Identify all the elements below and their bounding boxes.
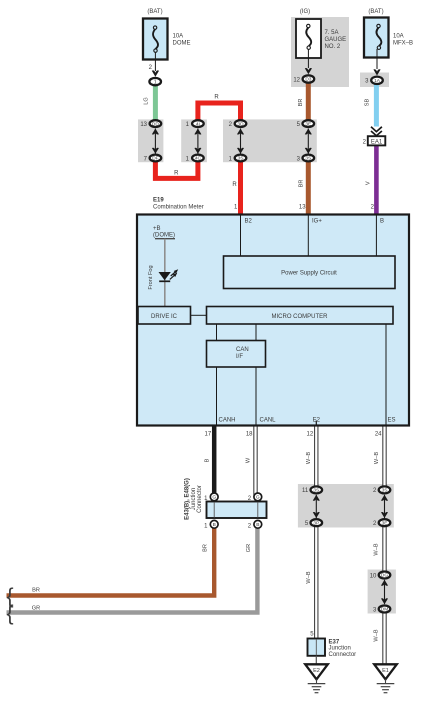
svg-text:3S: 3S — [305, 156, 311, 162]
svg-text:DF: DF — [152, 156, 158, 162]
pin 2 of fuse F1 with arrow — [149, 52, 159, 77]
fuse F3 10A MFX-B — [364, 9, 413, 58]
connector 3S pin 11 — [302, 486, 322, 494]
svg-text:E2: E2 — [313, 418, 321, 424]
wire MICRO COMPUTER to CAN I/F left — [216, 324, 218, 341]
svg-text:11: 11 — [302, 488, 309, 494]
svg-text:Connector: Connector — [197, 485, 203, 513]
ground E2 — [305, 664, 328, 692]
svg-text:1: 1 — [154, 79, 157, 85]
wire W (CANL) — [246, 427, 256, 498]
svg-text:3S: 3S — [313, 488, 319, 494]
E19 Combination Meter box — [137, 215, 409, 426]
MICRO COMPUTER box — [207, 307, 394, 325]
svg-text:G: G — [256, 495, 260, 501]
junction connector E43(B) E48(G) label — [185, 478, 204, 520]
svg-text:R: R — [214, 95, 219, 101]
svg-text:MICRO COMPUTER: MICRO COMPUTER — [272, 314, 329, 320]
svg-text:V: V — [366, 181, 372, 185]
wire SB — [365, 84, 377, 127]
svg-text:3S: 3S — [382, 488, 388, 494]
pin 3 of fuse F3 with arrow — [373, 49, 380, 76]
svg-text:CANH: CANH — [219, 418, 236, 424]
junction connector E37 pin 5 — [308, 631, 357, 658]
wire W-B from DM to ground E1 — [374, 611, 385, 664]
connector 3E pin 5 — [297, 120, 314, 128]
svg-text:(BAT): (BAT) — [147, 9, 162, 15]
connector 3S pin 3 — [297, 155, 314, 163]
wire V from EA1 to pin B — [366, 146, 377, 214]
svg-text:10A: 10A — [393, 34, 404, 40]
svg-text:B2: B2 — [245, 219, 253, 225]
junction connector E43/E48 body — [207, 502, 267, 519]
E19 Combination Meter label — [153, 198, 204, 211]
svg-text:NO. 2: NO. 2 — [325, 44, 341, 50]
svg-text:10A: 10A — [173, 34, 184, 40]
svg-text:B: B — [256, 522, 259, 528]
svg-text:(IG): (IG) — [300, 9, 310, 15]
svg-text:CAN: CAN — [236, 347, 249, 353]
svg-text:BR: BR — [298, 180, 304, 188]
svg-text:IG+: IG+ — [312, 219, 322, 225]
wire 4I-4C (connector pair) — [194, 129, 201, 154]
svg-text:DM: DM — [381, 607, 388, 613]
wire W-B from 3E to DG — [374, 525, 385, 574]
pin tick E2 — [315, 421, 317, 426]
svg-text:BR: BR — [298, 99, 304, 107]
svg-text:4C: 4C — [195, 156, 202, 162]
LED front fog indicator — [148, 265, 178, 289]
wire 3S-3P (connector pair) — [313, 495, 320, 518]
svg-text:DOME: DOME — [173, 41, 191, 47]
svg-text:+B: +B — [153, 226, 161, 232]
svg-text:DD: DD — [152, 121, 159, 127]
svg-text:Power Supply Circuit: Power Supply Circuit — [281, 271, 337, 277]
connector DF pin 7 — [144, 155, 162, 163]
svg-text:GR: GR — [246, 544, 252, 552]
internal wire MICRO COMPUTER to ES — [385, 324, 387, 425]
wire LG — [144, 86, 156, 124]
svg-text:17: 17 — [205, 432, 212, 438]
svg-text:I/F: I/F — [236, 354, 243, 360]
junction block gray box (4I/4C) — [181, 119, 207, 162]
svg-text:ES: ES — [388, 418, 396, 424]
pin 24 ES — [375, 418, 396, 438]
wire MICRO COMPUTER to CAN I/F right — [255, 324, 257, 341]
wire GR from junction to left edge — [7, 522, 258, 613]
svg-text:LG: LG — [144, 97, 150, 104]
fuse F2 7.5A GAUGE NO.2 — [296, 9, 346, 58]
pin 12 of fuse F2 with arrow — [305, 49, 312, 74]
wire W-B pin E2 to 3S — [306, 427, 316, 488]
power supply circuit box — [224, 256, 396, 289]
svg-text:3E: 3E — [382, 520, 388, 526]
DRIVE IC box — [138, 307, 191, 325]
connector DM pin 3 — [373, 606, 390, 614]
svg-text:W–B: W–B — [374, 629, 380, 641]
svg-text:D3: D3 — [305, 77, 311, 83]
connector DG pin 10 — [370, 572, 391, 580]
wire W-B pin ES to 3S — [374, 427, 385, 488]
svg-text:DG: DG — [381, 573, 388, 579]
connector DD pin 13 — [140, 120, 161, 128]
svg-text:BR: BR — [203, 544, 209, 552]
fuse GAUGE NO.2 gray panel — [291, 17, 349, 87]
wire W-B from 3P to E37 — [306, 525, 316, 639]
ground E1 — [374, 664, 397, 692]
svg-text:EA1: EA1 — [371, 139, 383, 145]
junction block gray box (DG/DM) — [368, 570, 396, 614]
svg-text:W–B: W–B — [374, 452, 380, 464]
svg-text:SB: SB — [365, 99, 371, 107]
svg-text:Connector: Connector — [329, 652, 357, 658]
svg-text:Combination Meter: Combination Meter — [153, 205, 204, 211]
svg-text:G: G — [212, 495, 216, 501]
internal wire IG+ to power supply circuit — [307, 216, 309, 257]
svg-text:13: 13 — [299, 205, 306, 211]
svg-text:1A: 1A — [374, 78, 381, 84]
svg-text:B: B — [213, 522, 216, 528]
svg-text:E2: E2 — [313, 668, 320, 674]
svg-text:BR: BR — [32, 588, 40, 594]
svg-text:E37: E37 — [329, 639, 340, 645]
wire from E37 to ground E2 — [315, 656, 317, 664]
junction pin 1 G (top left) — [204, 493, 218, 502]
svg-text:10: 10 — [370, 573, 377, 579]
pin 1 B2 — [234, 205, 252, 225]
wire 3E-3S (connector pair) — [305, 129, 312, 154]
svg-text:R: R — [232, 182, 237, 188]
svg-text:12: 12 — [307, 432, 314, 438]
svg-text:(DOME): (DOME) — [153, 233, 175, 239]
pin 12 E2 — [307, 418, 321, 438]
svg-text:R: R — [174, 170, 179, 176]
svg-text:(BAT): (BAT) — [368, 9, 383, 15]
svg-text:E43(B), E48(G): E43(B), E48(G) — [185, 478, 191, 520]
pin 13 IG+ — [299, 205, 322, 225]
connector 4I pin 1 — [186, 120, 204, 128]
wire 3D-3S (connector pair) — [237, 129, 244, 154]
wire BR from junction to left edge — [7, 522, 215, 596]
svg-text:13: 13 — [140, 122, 147, 128]
pin 17 CANH — [205, 418, 236, 438]
connector D3 pin 12 — [293, 75, 314, 83]
junction pin 2 B (bottom right) — [248, 520, 262, 529]
svg-text:{: { — [7, 602, 14, 625]
gray patch behind connector 1A — [360, 73, 389, 88]
internal wire B to power supply circuit — [375, 216, 377, 257]
CAN I/F box — [207, 341, 266, 368]
node +B (DOME) tap — [153, 226, 175, 307]
junction pin 1 B (bottom left) — [204, 520, 218, 529]
svg-text:3E: 3E — [305, 121, 311, 127]
svg-text:W–B: W–B — [374, 543, 380, 555]
svg-text:E19: E19 — [153, 198, 164, 204]
connector 3S pin 1 — [229, 155, 247, 163]
double chevron into EA1 — [371, 127, 382, 136]
connector 1A pin 3 — [365, 77, 383, 85]
svg-text:B: B — [380, 219, 384, 225]
svg-text:MFX–B: MFX–B — [393, 41, 413, 47]
wire BR from 3S to pin IG+ — [298, 156, 308, 214]
junction pin 2 G (top right) — [248, 493, 262, 502]
wire B (CANH) — [205, 427, 215, 498]
wire DD-DF (connector pair) — [152, 129, 159, 154]
svg-text:3P: 3P — [313, 520, 319, 526]
connector 3D pin 2 — [229, 120, 247, 128]
svg-text:CANL: CANL — [260, 418, 277, 424]
svg-text:W–B: W–B — [306, 571, 312, 583]
svg-text:B: B — [205, 458, 211, 462]
junction block gray box (3D/3S 3E/3S) — [223, 119, 317, 162]
svg-text:3S: 3S — [238, 156, 244, 162]
svg-text:GAUGE: GAUGE — [325, 37, 347, 43]
wire 3S-3E (connector pair) — [381, 495, 388, 518]
svg-text:12: 12 — [293, 77, 300, 83]
wire DRIVE IC to MICRO COMPUTER — [191, 314, 207, 316]
svg-text:Junction: Junction — [191, 488, 197, 510]
svg-text:Junction: Junction — [329, 646, 351, 652]
connector 3S pin 2 — [373, 486, 390, 494]
pin 2 B — [371, 205, 384, 225]
wire BR from D3 to 3E — [298, 82, 308, 125]
connector 3P pin 5 — [305, 519, 322, 527]
fuse F1 10A DOME — [143, 9, 191, 60]
pin 18 CANL — [246, 418, 276, 438]
connector 4C pin 1 — [186, 155, 204, 163]
wire R from 3S to pin B2 — [232, 156, 240, 214]
connector oval 1 (DOME) — [149, 78, 161, 85]
svg-text:4I: 4I — [196, 121, 200, 127]
svg-text:3D: 3D — [237, 121, 244, 127]
internal wire B2 to power supply circuit — [240, 216, 242, 257]
svg-text:Front Fog: Front Fog — [148, 265, 154, 289]
junction block gray box (3S/3P 3S/3E) — [298, 484, 394, 528]
wire R from DF to 4C — [155, 156, 198, 178]
junction block gray box (DD/DF) — [138, 119, 163, 162]
node EA1 pin 2 — [363, 136, 386, 145]
svg-text:7. 5A: 7. 5A — [325, 30, 339, 36]
internal wire CAN I/F to CANH — [216, 367, 218, 425]
svg-text:E1: E1 — [382, 668, 389, 674]
svg-text:W: W — [246, 457, 252, 463]
svg-text:GR: GR — [32, 606, 40, 612]
connector 3E pin 2 — [373, 519, 390, 527]
svg-text:W–B: W–B — [306, 452, 312, 464]
wire DG-DM (connector pair) — [381, 580, 388, 604]
internal wire CAN I/F to CANL — [255, 367, 257, 425]
svg-text:DRIVE IC: DRIVE IC — [151, 314, 178, 320]
wire R from 4I to 3D — [198, 95, 241, 126]
svg-text:18: 18 — [246, 432, 253, 438]
svg-text:24: 24 — [375, 432, 382, 438]
